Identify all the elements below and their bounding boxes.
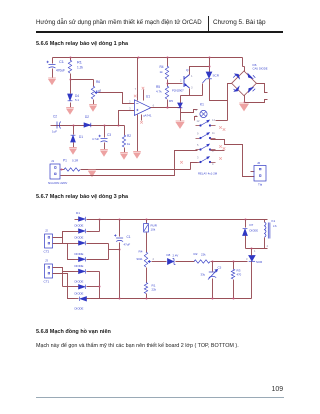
wire U1 output [151,107,181,109]
junction top rail / SCR [209,57,211,59]
wire D5 left lead [75,271,79,273]
wire RUR to R4 [146,233,148,253]
wire R2 to SCR gate [211,261,248,263]
svg-text:33u: 33u [201,273,206,277]
svg-text:DIODE: DIODE [75,307,84,311]
no-connect X row4 left [180,161,183,164]
no-connect X [219,126,222,129]
wire R4 top lead [167,58,169,67]
wire D3-D4 right link [108,244,110,260]
capacitor C1 470uF [47,61,56,68]
wire D4 right lead long [87,259,109,261]
svg-text:J2: J2 [45,229,48,233]
wire Q1 base [168,83,183,85]
svg-text:R2: R2 [194,252,198,256]
wire D3 right lead long [87,243,109,245]
connector J3 CT1 [45,264,53,278]
wire D1 right lead [87,219,91,221]
SCR Q2 circuit2 [249,256,255,262]
wire C3 bottom lead [104,143,106,150]
junction bus/U1 pin3 [118,125,120,127]
relay contact 2 left stub [196,138,200,140]
wire P1 to relay row4 [81,169,191,171]
resistor R1 1.2k [68,60,71,73]
junction output/D5 [180,107,182,109]
svg-text:D8: D8 [167,253,171,257]
junction node R1/D4 [70,79,72,81]
wire D1-D2 right link [99,220,101,232]
svg-text:2: 2 [153,257,155,261]
wire bridge ground to J5 pin2 [245,100,268,103]
wire D7 bottom lead [245,236,247,249]
svg-text:1.2k: 1.2k [77,66,83,70]
wire D4 top lead [70,80,72,94]
svg-text:4: 4 [267,244,269,248]
wire bridge top lead [244,67,246,72]
SCR Q2 [203,72,212,83]
resistor R5 4.7k [165,86,168,99]
junction top rail / R4 [167,57,169,59]
svg-text:R6: R6 [96,80,100,84]
svg-text:K1: K1 [272,219,276,223]
svg-text:D1: D1 [76,211,80,215]
junction bus/D1 [73,125,75,127]
resistor P1 0.2R [64,168,80,171]
svg-text:DIODE: DIODE [75,236,84,240]
potentiometer R4 wiper arrow [148,260,151,262]
svg-text:U1: U1 [146,95,150,99]
svg-text:2.4V: 2.4V [173,253,179,257]
svg-text:C1: C1 [59,60,64,64]
fuse/varistor RUR [144,224,149,233]
wire R1 bottom to node [71,74,94,80]
transistor Q1 P2N2907 [184,75,190,89]
wire SCR cathode route [210,79,228,101]
svg-text:P2N2907: P2N2907 [172,89,184,93]
wire rectified tap to C1 column [109,249,120,251]
ground under D5 [176,121,185,128]
wire D4 right lead [87,259,91,261]
wire C3 top lead [212,262,214,272]
wire D1 bottom lead [73,143,75,148]
wire U1 pin1 stub [143,90,145,101]
relay contact 4 [200,157,211,163]
wire C2 left stub [51,125,54,127]
junction D6/bus riser [99,286,101,288]
diode D4 [79,257,86,261]
svg-text:12: 12 [197,119,200,123]
ground under D1 [69,148,77,154]
svg-text:J6: J6 [257,161,260,165]
capacitor C2 1uF [57,122,61,129]
wire R4-R5 link [167,80,169,87]
wire vertical D5-D6 link [62,272,64,287]
connector J6 Tai load [254,166,266,182]
svg-text:22k: 22k [152,288,157,292]
wire J1 pin2 to contact3 [61,151,198,176]
wire CT2 pin2 to D4 [53,244,75,260]
wire top rail circuit2 [87,219,268,221]
svg-text:CAU DIODE: CAU DIODE [253,67,268,71]
wire bridge right to J5 pin1 [257,84,268,93]
junction rail/RUR [146,219,148,221]
wire D4 bottom lead [70,103,72,108]
svg-text:5: 5 [196,114,198,118]
wire D5 right lead [87,271,91,273]
diode D1 [71,135,76,142]
op-amp U1 uA741 [134,100,150,116]
connector J2 CT2 [45,234,53,248]
junction rail/D7 [245,219,247,221]
wire vertical D2-D3 link [62,232,64,244]
junction output/R5 [167,107,169,109]
ground on source return [88,170,96,176]
wire SCR gate lead [202,84,204,96]
svg-text:LS: LS [273,224,277,228]
svg-text:4.7k: 4.7k [156,90,162,94]
svg-text:14: 14 [212,118,215,122]
wire J1 pin1 to P1 [61,169,65,171]
relay contact 4 left stub [196,162,200,164]
junction bus/C3 [104,125,106,127]
relay contact 3 right stub [211,149,216,151]
wire SCR anode lead [209,58,211,73]
wire C1 bottom to bus [119,243,121,299]
svg-text:DIODE: DIODE [75,224,84,228]
svg-text:R5: R5 [156,85,160,89]
wire bridge bottom lead [244,96,246,103]
ground under C1 [48,78,56,84]
wire D7 left lead [75,298,79,300]
svg-text:D6: D6 [253,63,257,67]
svg-text:RELAY 4x1-2M: RELAY 4x1-2M [198,172,218,176]
svg-text:DIODE: DIODE [75,280,84,284]
no-connect X [219,157,222,160]
svg-text:1uF: 1uF [52,130,57,134]
wire Q1 emitter to D5 node [181,89,190,96]
diode D6 [79,285,86,289]
svg-text:6: 6 [153,103,155,107]
svg-text:R4: R4 [139,250,143,254]
wire C1 top lead [119,220,121,237]
wire jog [243,66,245,68]
wire to D3 [63,243,75,245]
wire SCR anode lead [251,249,253,256]
junction top rail / R1 [70,57,72,59]
wire bottom bus circuit2 [91,298,252,300]
wire D2 left lead [75,231,79,233]
wire C3 top lead [104,126,106,138]
svg-text:uA741: uA741 [143,114,152,118]
svg-text:11: 11 [212,131,215,135]
wire R2 top lead [124,126,126,136]
wire R3 top lead [233,262,235,270]
wire D7/coil bottom link [246,248,268,250]
wire D5 right to bottom bus [99,272,101,299]
relay contact 2 [200,133,211,139]
svg-text:K1: K1 [200,103,204,107]
wire rail to bridge top [242,58,244,67]
junction rail/C1 [119,219,121,221]
svg-text:1: 1 [191,74,193,78]
svg-text:3: 3 [191,86,193,90]
wire D5 node down [180,109,182,122]
svg-text:10k: 10k [151,228,156,232]
svg-text:C3: C3 [218,266,222,270]
connector J1 source [50,164,60,179]
svg-text:DIODE: DIODE [75,292,84,296]
svg-text:47uF: 47uF [124,243,131,247]
wire C1 bottom lead [52,69,54,78]
no-connect X [223,128,226,131]
svg-text:9: 9 [197,132,199,136]
svg-text:CT2: CT2 [44,250,50,254]
svg-text:DIODE: DIODE [250,229,259,233]
wire D1 top lead [73,126,75,135]
svg-text:R4: R4 [160,65,164,69]
no-connect X [223,147,226,150]
potentiometer R4 [144,252,147,267]
svg-text:470uF: 470uF [56,69,65,73]
svg-text:1k: 1k [127,142,131,146]
ground under bridge [239,103,249,111]
junction rail/D1-D2 link [99,219,101,221]
wire top supply rail [53,57,243,59]
wire Q1 collector to SCR [190,67,210,75]
diode D1 [79,217,86,221]
wire D3 right lead [87,243,91,245]
junction bus/C1 [119,298,121,300]
wire D5 node to K1 coil pin [181,110,198,113]
junction bus/C3 [212,298,214,300]
resistor R2 1k [122,135,125,147]
svg-text:2: 2 [180,79,182,83]
wire K1 coil pin 5 stub [195,117,198,121]
svg-text:2: 2 [196,108,198,112]
wire coil bottom lead [264,238,266,249]
wire RUR top lead [146,220,148,224]
junction R5/U1 output [167,107,169,109]
svg-text:SCR: SCR [256,260,262,264]
svg-text:5: 5 [197,143,199,147]
wire SCR cathode to bus [251,262,253,299]
svg-text:J3: J3 [45,259,48,263]
no-connect X pin5 [140,121,143,124]
junction bus/R3 [233,298,235,300]
wire rail to D7 [245,220,247,228]
svg-text:22k: 22k [201,252,206,256]
svg-text:NGUON 220V: NGUON 220V [48,181,68,185]
diode D2 [79,229,86,233]
svg-text:R2: R2 [127,134,131,138]
diode D4 zener [68,94,73,101]
wire U1 pin7 V+ to rail [137,58,139,101]
diode D2 [84,123,91,127]
svg-text:D1: D1 [79,135,83,139]
resistor R3 470 [231,269,234,279]
junction mid/C3 [212,261,214,263]
wire D5 top lead [180,96,182,104]
wire D2 right lead [87,231,91,233]
potentiometer R6 10k [91,86,94,99]
wire D5 right lead long [87,271,100,273]
junction J1 pin1 [61,169,63,171]
wire J load pin1 stub [251,171,255,173]
wire D4 left lead [75,259,79,261]
junction R4/R5/Q1 base [167,83,169,85]
ground under D4 [66,108,74,114]
diode D5 zener [178,103,183,108]
svg-text:R1: R1 [77,61,82,65]
svg-text:DIODE: DIODE [75,252,84,256]
wire to contact4 left pin [191,163,198,170]
svg-text:470: 470 [237,273,242,277]
wire to D6 [63,286,75,288]
no-connect X [219,145,222,148]
relay coil K1 [200,110,207,117]
wire D2 right lead long [87,231,100,233]
junction bridge bottom [244,102,246,104]
svg-text:2: 2 [129,100,131,104]
wire U1 pin5 stub [141,115,143,121]
relay contact 1 right stub [211,125,216,127]
wire R6 bottom lead [93,100,95,105]
wire CT1 pin2 to D7row [53,274,75,299]
svg-text:D2: D2 [85,115,89,119]
ground under U1 pin4 [133,152,141,158]
wire R1 bottom lead [146,294,148,299]
svg-text:2: 2 [100,88,102,92]
wire D1 left lead [75,219,79,221]
wire R6 top lead [93,80,95,87]
wire R4 bottom to R1 [146,268,148,283]
wire bridge left vertex down [228,84,232,121]
svg-text:SCR: SCR [213,74,220,78]
wire D6 right lead long [87,286,100,288]
svg-text:Tải: Tải [258,183,263,187]
svg-text:J1: J1 [51,159,54,163]
relay contact 1 left stub [196,125,200,127]
wire emitter node to SCR gate [190,95,203,97]
wire wiper to D8 [152,261,167,263]
wire contact3 stub [211,150,225,152]
svg-text:0.2R: 0.2R [72,159,78,163]
bridge rectifier D6 CAU DIODE [232,71,257,96]
svg-text:9011: 9011 [137,257,143,261]
junction mid/R3 [233,261,235,263]
wire bridge left to relay pin14 [216,120,228,122]
wire CT2 pin1 to D2 [53,232,75,238]
diode D7 [243,229,248,236]
svg-text:3: 3 [129,106,131,110]
svg-text:5.1: 5.1 [75,98,79,102]
wire D6 left lead [75,286,79,288]
junction SCR anode/Q1 [209,66,211,68]
ground under C3 [100,150,108,156]
svg-text:7: 7 [135,87,137,91]
diode D7 [80,297,87,301]
svg-text:3: 3 [197,156,199,160]
wire D6 right lead [87,286,91,288]
relay contact 2 right stub [211,138,216,140]
svg-text:C2: C2 [53,115,57,119]
svg-text:3: 3 [246,257,248,261]
wire R2 bottom lead [124,148,126,153]
potentiometer R6 wiper arrow [95,91,99,93]
wire contact2 to J load pin2 [211,140,255,177]
junction top rail / U1 V+ [138,57,140,59]
wire comparator input bus [54,125,125,127]
svg-text:C1: C1 [127,235,131,239]
resistor R1 22k [144,283,147,294]
diode D8 zener 2.4V [168,259,176,265]
svg-text:4.7uF: 4.7uF [92,137,99,141]
svg-text:DIODE: DIODE [75,264,84,268]
junction SCR anode [251,248,253,250]
wire C3 bottom to bus [212,279,214,299]
wire R3 bottom to bus [233,280,235,299]
wire D7 right lead [87,298,91,300]
relay contact 3 left stub [196,149,200,151]
wire R1 top lead [70,58,72,61]
wire CT1 pin1 to D5 [53,268,75,272]
svg-text:D7: D7 [250,223,254,227]
junction bus/R1 [146,298,148,300]
wire bus to U1 pin 3 [119,111,135,126]
resistor R2 22k [194,260,210,263]
svg-text:C3: C3 [107,133,111,137]
capacitor C3 4.7uF [99,135,108,142]
relay contact 1 [200,120,211,126]
wire C1 top lead [52,58,54,64]
capacitor C1 47uF [114,234,123,241]
ground under R6 [89,105,97,111]
svg-text:1k: 1k [160,70,164,74]
wire D3 left lead [75,243,79,245]
no-connect X pin1 [142,87,145,90]
resistor R4 1k [165,66,168,79]
relay contact 4 right stub [211,162,216,164]
wire D8 to R2 [176,261,195,263]
relay contact 3 [200,144,211,150]
wire R6 wiper to U1 pin 2 [99,93,135,104]
relay coil K1 [265,222,270,239]
diode D3 [79,241,86,245]
capacitor C3 variable 33u [208,270,218,280]
junction C1 column [119,249,121,251]
svg-text:CT1: CT1 [44,280,50,284]
diode D5 [79,269,86,273]
wire R5 bottom lead [167,100,169,108]
wire rail to K1 coil [264,220,266,223]
svg-text:D5: D5 [169,99,173,103]
svg-text:P1: P1 [63,159,67,163]
ground under R2 [120,153,128,159]
svg-text:1: 1 [254,249,256,253]
no-connect X pin8 [134,95,137,98]
wire U1 pin4 V- lead [137,115,139,152]
